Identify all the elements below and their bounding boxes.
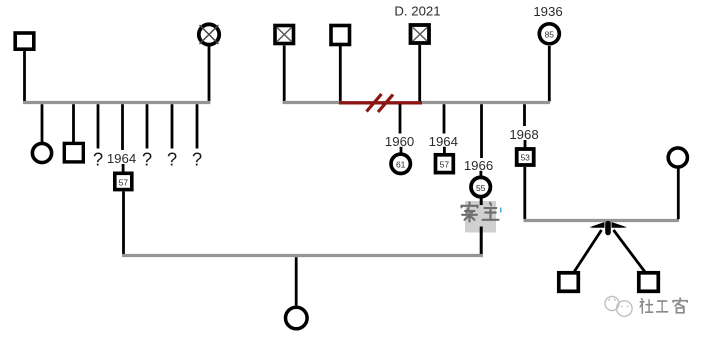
- svg-text:53: 53: [520, 152, 530, 162]
- svg-text:57: 57: [119, 178, 129, 188]
- svg-text:?: ?: [167, 149, 177, 170]
- svg-text:1964: 1964: [107, 151, 136, 166]
- svg-text:1968: 1968: [509, 127, 538, 142]
- svg-text:57: 57: [440, 160, 450, 170]
- svg-text:?: ?: [93, 149, 103, 170]
- svg-text:1936: 1936: [533, 4, 562, 19]
- svg-text:1960: 1960: [385, 134, 414, 149]
- svg-text:?: ?: [142, 149, 152, 170]
- svg-text:1964: 1964: [429, 134, 458, 149]
- svg-text:?: ?: [192, 149, 202, 170]
- svg-text:D. 2021: D. 2021: [394, 4, 440, 19]
- svg-text:55: 55: [476, 183, 486, 193]
- svg-text:1966: 1966: [464, 158, 493, 173]
- svg-text:85: 85: [545, 29, 555, 39]
- svg-text:61: 61: [396, 159, 406, 169]
